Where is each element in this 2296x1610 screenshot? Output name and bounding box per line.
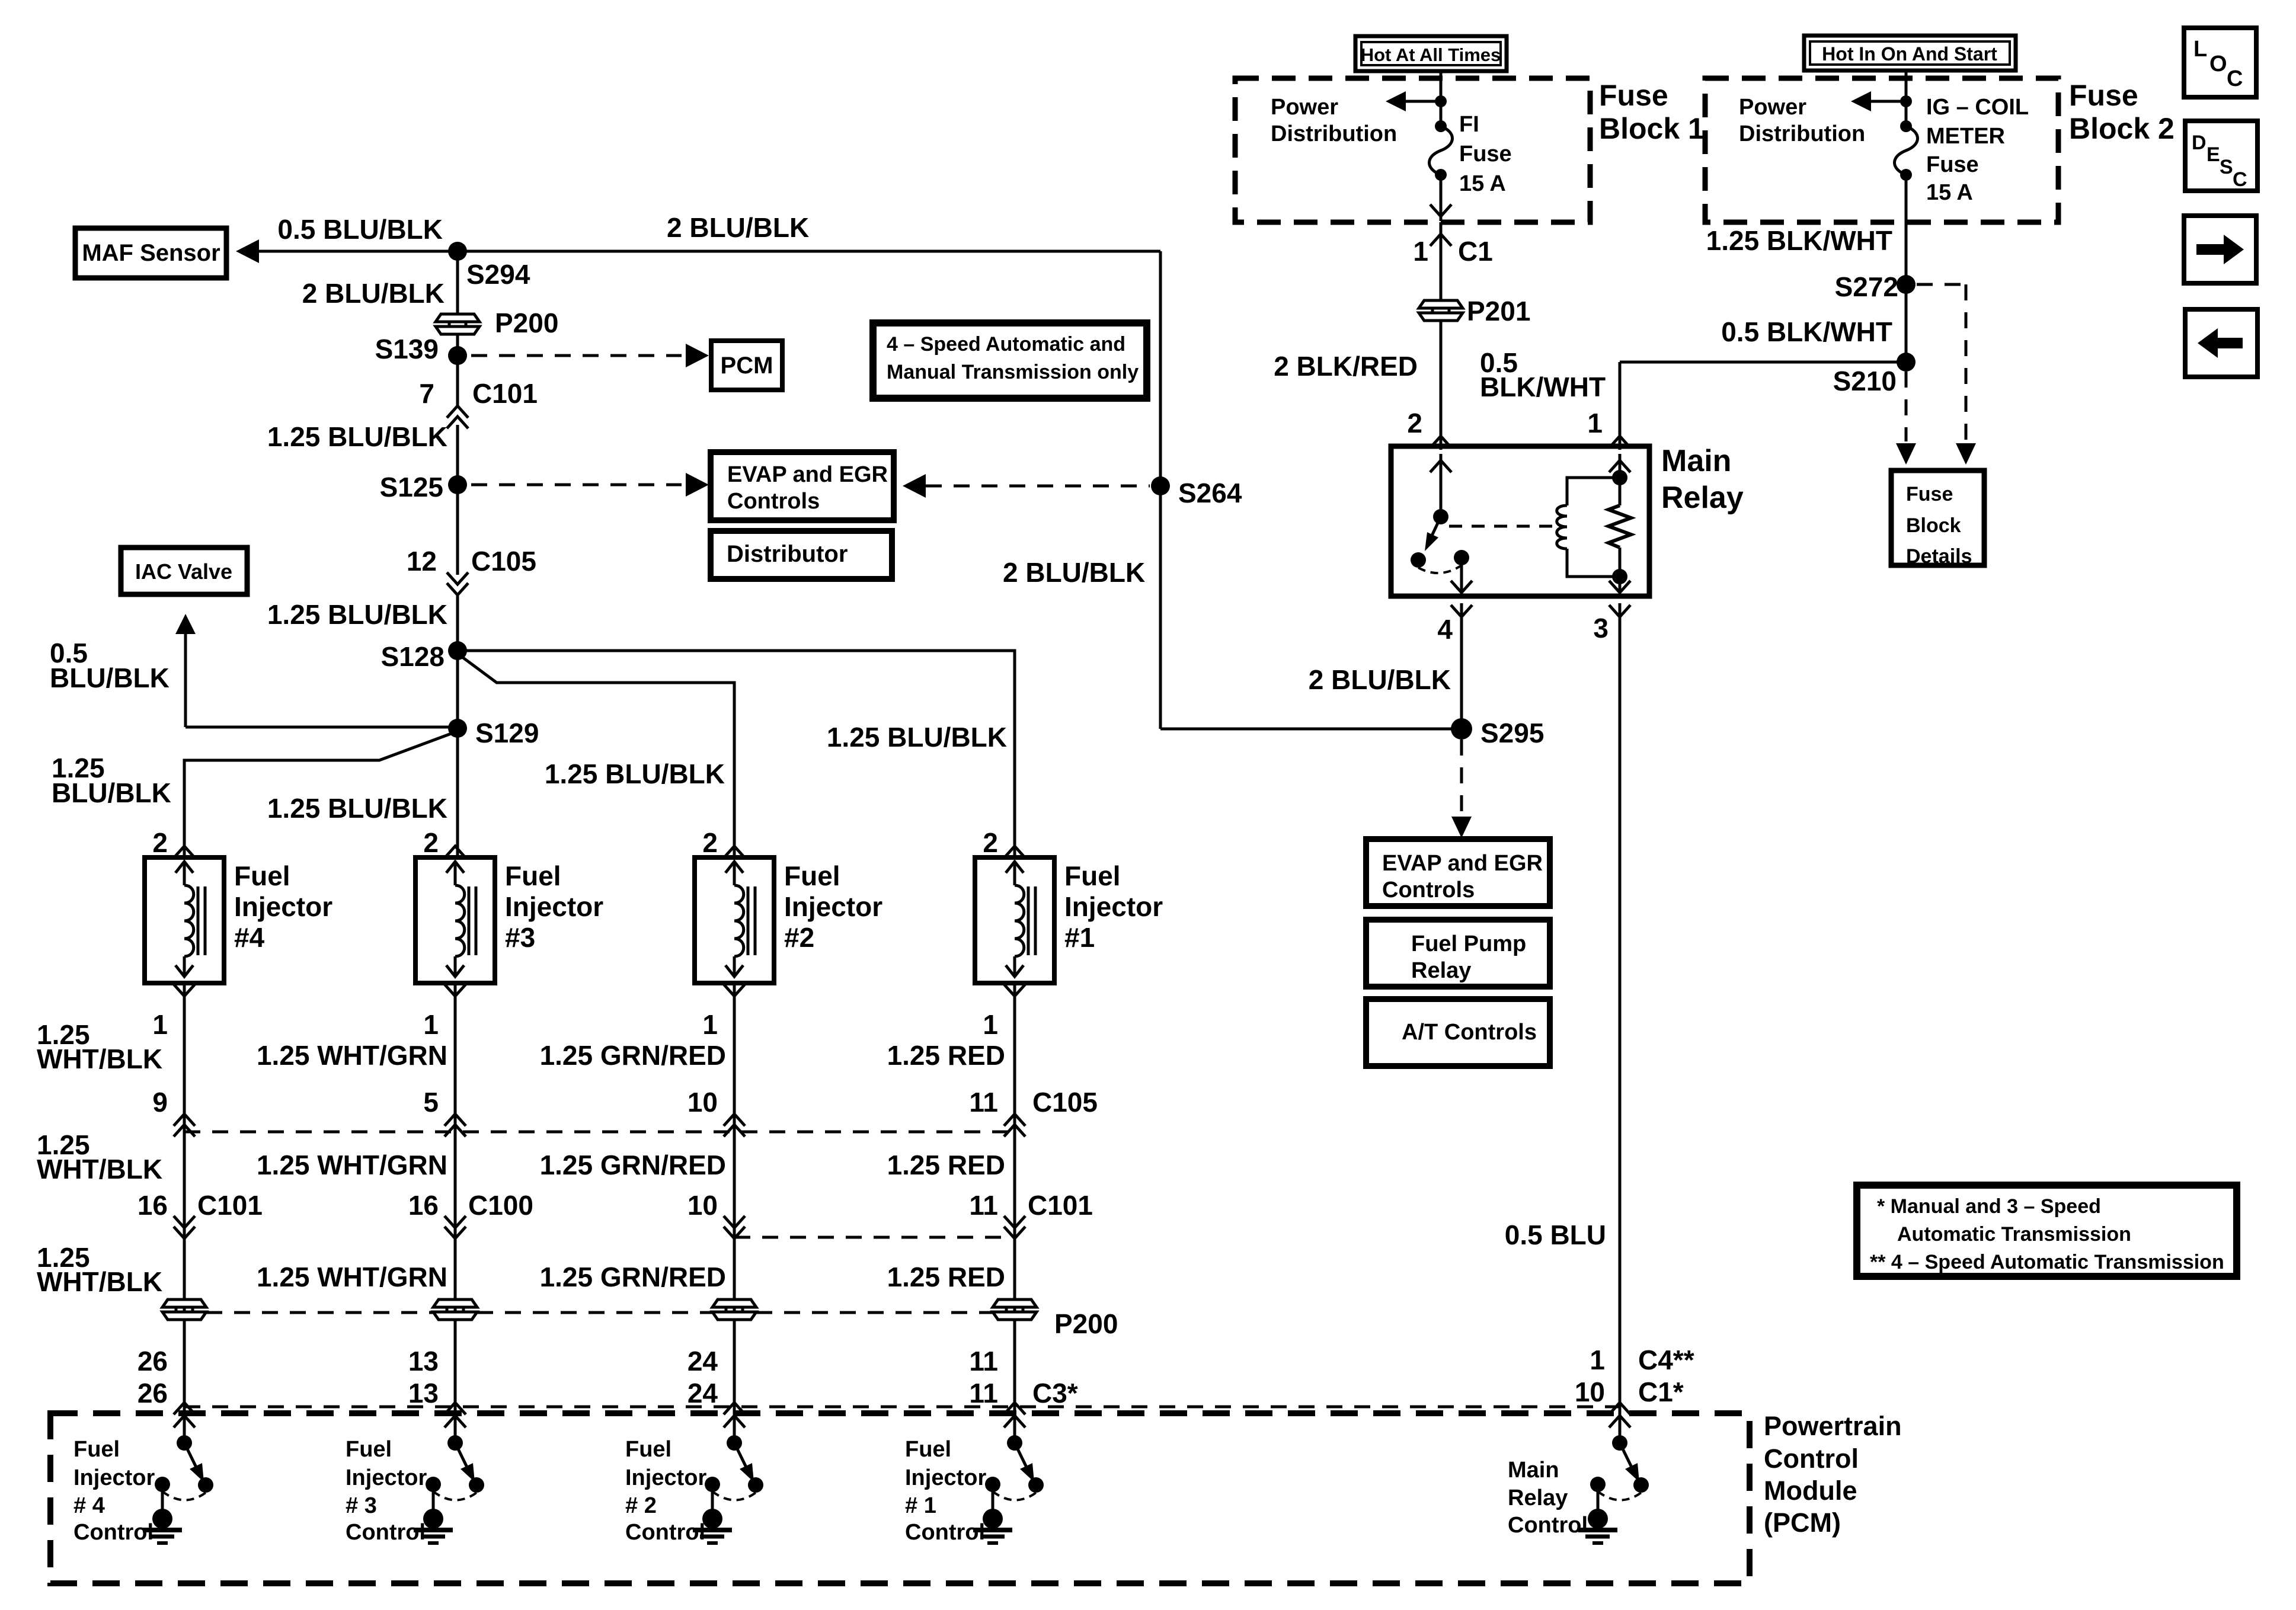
Fuse Block 1 dashed box bbox=[1235, 78, 1590, 222]
svg-text:1: 1 bbox=[1413, 236, 1428, 267]
node S210 bbox=[1833, 353, 1916, 396]
connector P201 bbox=[1419, 296, 1530, 327]
svg-text:WHT/BLK: WHT/BLK bbox=[37, 1266, 162, 1297]
svg-text:EVAP and EGR: EVAP and EGR bbox=[1382, 851, 1543, 876]
fuel injector #1 pin 1 bbox=[983, 984, 1025, 1040]
note box: 4-Speed Automatic and Manual Transmission only bbox=[873, 323, 1147, 398]
svg-text:1: 1 bbox=[702, 1009, 718, 1040]
dashed wire S295 to EVAP controls bbox=[1451, 740, 1472, 838]
fuel injector #3 pin 2 bbox=[423, 827, 466, 858]
connector C101/C100 row: pins 16,16,10,11 bbox=[137, 1190, 263, 1238]
svg-text:FI: FI bbox=[1459, 112, 1479, 137]
svg-text:P201: P201 bbox=[1467, 296, 1530, 327]
svg-text:1: 1 bbox=[1587, 408, 1603, 438]
svg-text:1.25 BLU/BLK: 1.25 BLU/BLK bbox=[827, 722, 1007, 753]
svg-text:C105: C105 bbox=[1032, 1087, 1098, 1118]
svg-text:2 BLU/BLK: 2 BLU/BLK bbox=[302, 278, 445, 309]
svg-text:# 1: # 1 bbox=[905, 1493, 936, 1518]
svg-text:Fuse: Fuse bbox=[1926, 152, 1979, 177]
svg-text:S125: S125 bbox=[380, 472, 443, 502]
dashed wire S139 to PCM bbox=[471, 344, 709, 367]
connector C105 pin 12 bbox=[407, 546, 536, 595]
svg-text:Hot At All Times: Hot At All Times bbox=[1361, 44, 1501, 65]
svg-text:C105: C105 bbox=[471, 546, 536, 577]
wire injector #2 to PCM bbox=[733, 983, 736, 1443]
svg-text:Fuel: Fuel bbox=[1064, 860, 1121, 891]
wire injector #4 to PCM bbox=[183, 983, 186, 1443]
svg-text:Distribution: Distribution bbox=[1739, 121, 1865, 146]
svg-text:5: 5 bbox=[423, 1087, 439, 1118]
svg-text:E: E bbox=[2207, 143, 2220, 166]
node S129 bbox=[448, 718, 539, 748]
svg-text:Block 1: Block 1 bbox=[1599, 112, 1705, 145]
svg-text:C4**: C4** bbox=[1638, 1345, 1694, 1375]
svg-text:1.25 GRN/RED: 1.25 GRN/RED bbox=[540, 1150, 726, 1180]
svg-text:Injector: Injector bbox=[234, 891, 332, 922]
connector C101 pin 7 bbox=[419, 378, 538, 428]
fuel injector #4 pin 1 bbox=[152, 984, 195, 1040]
svg-text:# 4: # 4 bbox=[73, 1493, 105, 1518]
dashed connector line C101 bbox=[734, 1236, 1015, 1239]
wire label 1.25 BLU/BLK (injector 4 feed) bbox=[52, 753, 171, 808]
svg-text:Fuse: Fuse bbox=[2069, 79, 2138, 112]
wire 1.25 BLK/WHT bbox=[1706, 175, 1906, 362]
svg-text:Fuel: Fuel bbox=[625, 1437, 671, 1462]
svg-text:BLU/BLK: BLU/BLK bbox=[52, 777, 171, 808]
svg-text:L: L bbox=[2193, 37, 2207, 62]
svg-text:26: 26 bbox=[137, 1346, 168, 1377]
driver: fuel injector # 4 control bbox=[143, 1435, 213, 1543]
svg-text:Distribution: Distribution bbox=[1271, 121, 1397, 146]
svg-text:Power: Power bbox=[1271, 95, 1338, 120]
svg-text:C: C bbox=[2233, 168, 2247, 191]
svg-text:1.25 RED: 1.25 RED bbox=[887, 1262, 1005, 1292]
wire from Hot At All Times into fuse block bbox=[1440, 71, 1443, 126]
wire label 1.25 WHT/BLK (row 1) bbox=[37, 1019, 162, 1074]
wire injector #1 to PCM bbox=[1013, 983, 1016, 1443]
svg-text:Block: Block bbox=[1906, 514, 1961, 537]
wire 0.5 BLU/BLK to IAC Valve with arrow bbox=[50, 614, 458, 727]
svg-text:9: 9 bbox=[152, 1087, 168, 1118]
relay pin 3 bbox=[1593, 603, 1630, 1443]
node S294 bbox=[448, 242, 530, 290]
svg-text:1: 1 bbox=[983, 1009, 998, 1040]
svg-text:S129: S129 bbox=[475, 718, 539, 748]
svg-text:26: 26 bbox=[137, 1378, 168, 1409]
fuel injector #2 bbox=[695, 857, 774, 983]
svg-text:O: O bbox=[2209, 52, 2227, 76]
svg-text:1.25 BLU/BLK: 1.25 BLU/BLK bbox=[267, 421, 447, 452]
svg-text:16: 16 bbox=[137, 1190, 168, 1221]
svg-text:Controls: Controls bbox=[1382, 878, 1475, 902]
svg-text:Fuse: Fuse bbox=[1599, 79, 1668, 112]
svg-text:C1: C1 bbox=[1458, 236, 1493, 267]
wire to S295 horizontal bbox=[1160, 728, 1462, 731]
svg-text:16: 16 bbox=[408, 1190, 439, 1221]
svg-text:C101: C101 bbox=[197, 1190, 263, 1221]
svg-text:1: 1 bbox=[1590, 1345, 1605, 1375]
svg-text:11: 11 bbox=[969, 1378, 998, 1409]
svg-text:Injector: Injector bbox=[784, 891, 882, 922]
svg-text:IG – COIL: IG – COIL bbox=[1926, 95, 2029, 120]
svg-text:C101: C101 bbox=[472, 378, 538, 409]
svg-text:2: 2 bbox=[1407, 408, 1422, 438]
svg-text:# 2: # 2 bbox=[625, 1493, 657, 1518]
dashed connector line C3/C1 into PCM bbox=[184, 1406, 1620, 1409]
connector C1 pin 1 bbox=[1413, 222, 1492, 302]
svg-text:Injector: Injector bbox=[905, 1465, 986, 1490]
svg-text:WHT/BLK: WHT/BLK bbox=[37, 1044, 162, 1074]
PCM box bbox=[711, 341, 782, 390]
svg-text:Module: Module bbox=[1764, 1475, 1857, 1506]
svg-text:Main: Main bbox=[1508, 1458, 1559, 1483]
relay resistor bbox=[1609, 505, 1631, 548]
connector C105 row: pins 9,5,10,11 bbox=[152, 1087, 195, 1137]
svg-text:S128: S128 bbox=[381, 641, 445, 672]
svg-text:12: 12 bbox=[407, 546, 437, 577]
Fuel Pump Relay box bbox=[1366, 920, 1550, 987]
svg-text:WHT/BLK: WHT/BLK bbox=[37, 1154, 162, 1185]
Powertrain Control Module dashed box bbox=[50, 1413, 1750, 1583]
svg-text:S: S bbox=[2220, 156, 2233, 178]
relay coil bbox=[1557, 470, 1627, 584]
svg-text:Fuel Pump: Fuel Pump bbox=[1411, 932, 1526, 956]
svg-text:(PCM): (PCM) bbox=[1764, 1507, 1841, 1538]
svg-text:Injector: Injector bbox=[505, 891, 603, 922]
svg-text:METER: METER bbox=[1926, 124, 2005, 149]
Fuse Block 2 dashed box bbox=[1705, 78, 2058, 222]
wire 1.25 BLU/BLK spine C105 to S129 bbox=[267, 593, 458, 857]
wire 2 BLU/BLK spine S294 to P200 bbox=[302, 251, 458, 314]
fuel injector #4 bbox=[145, 857, 224, 983]
relay mechanical link dashed bbox=[1449, 525, 1553, 528]
driver: fuel injector # 2 control bbox=[693, 1435, 763, 1543]
svg-text:C: C bbox=[2227, 66, 2243, 91]
svg-text:Injector: Injector bbox=[73, 1465, 155, 1490]
svg-text:Fuel: Fuel bbox=[346, 1437, 392, 1462]
wire S210 to relay pin 1 bbox=[1620, 361, 1906, 364]
svg-text:IAC Valve: IAC Valve bbox=[135, 559, 232, 584]
svg-text:P200: P200 bbox=[495, 308, 558, 338]
svg-text:0.5 BLU: 0.5 BLU bbox=[1505, 1219, 1606, 1250]
Hot At All Times box bbox=[1355, 36, 1507, 71]
svg-text:Relay: Relay bbox=[1411, 958, 1471, 983]
EVAP and EGR Controls box (lower) bbox=[1366, 839, 1550, 906]
svg-text:BLU/BLK: BLU/BLK bbox=[50, 662, 170, 693]
nav button DESC bbox=[2185, 121, 2257, 191]
node S264 bbox=[1151, 476, 1242, 508]
svg-text:Fuel: Fuel bbox=[73, 1437, 120, 1462]
connector P200 row bbox=[162, 1299, 206, 1320]
fuel injector #1 pin 2 bbox=[983, 827, 1025, 858]
driver: main relay control bbox=[1578, 1435, 1649, 1543]
node S128 bbox=[381, 641, 467, 672]
svg-text:Control: Control bbox=[346, 1520, 426, 1545]
svg-text:1: 1 bbox=[423, 1009, 439, 1040]
svg-text:2: 2 bbox=[702, 827, 718, 858]
svg-text:S272: S272 bbox=[1835, 271, 1898, 302]
svg-text:10: 10 bbox=[687, 1087, 718, 1118]
svg-text:D: D bbox=[2192, 132, 2207, 154]
IG-COIL METER Fuse 15 A bbox=[1895, 120, 1918, 181]
svg-text:Automatic Transmission: Automatic Transmission bbox=[1897, 1223, 2131, 1246]
Fuse Block Details box bbox=[1891, 470, 1984, 568]
wire label 0.5 BLK/WHT (to relay pin 1) bbox=[1480, 347, 1606, 402]
fuel injector #3 pin 1 bbox=[423, 984, 466, 1040]
svg-text:1.25 BLU/BLK: 1.25 BLU/BLK bbox=[267, 793, 447, 824]
wire 1.25 BLU/BLK spine C101 to C105 bbox=[267, 421, 458, 575]
svg-text:3: 3 bbox=[1593, 613, 1609, 644]
svg-text:Controls: Controls bbox=[727, 489, 820, 514]
svg-text:S295: S295 bbox=[1480, 718, 1544, 748]
wire 2 BLU/BLK second vertical bbox=[1003, 251, 1160, 729]
svg-text:S210: S210 bbox=[1833, 366, 1897, 396]
node S295 bbox=[1451, 718, 1544, 748]
dashed branch S272 to fuse block details bbox=[1917, 284, 1976, 465]
wire 2 BLK/RED to relay pin 2 bbox=[1274, 321, 1451, 450]
svg-text:Relay: Relay bbox=[1508, 1486, 1568, 1510]
svg-text:C101: C101 bbox=[1028, 1190, 1093, 1221]
EVAP and EGR Controls box (upper) bbox=[711, 452, 894, 520]
MAF Sensor box bbox=[75, 228, 226, 278]
wire 0.5 BLU/BLK to MAF Sensor with arrow bbox=[236, 214, 458, 263]
svg-text:2 BLU/BLK: 2 BLU/BLK bbox=[1003, 557, 1145, 588]
svg-text:S294: S294 bbox=[466, 259, 530, 290]
svg-text:1.25 WHT/GRN: 1.25 WHT/GRN bbox=[257, 1262, 447, 1292]
svg-text:Control: Control bbox=[905, 1520, 985, 1545]
Hot In On And Start box bbox=[1804, 36, 2016, 71]
svg-text:2: 2 bbox=[423, 827, 439, 858]
svg-text:Fuel: Fuel bbox=[784, 860, 840, 891]
svg-text:2 BLU/BLK: 2 BLU/BLK bbox=[667, 212, 809, 243]
wire injector #3 to PCM bbox=[454, 983, 457, 1443]
svg-text:1.25 BLU/BLK: 1.25 BLU/BLK bbox=[267, 599, 447, 630]
dashed connector line C105 bbox=[184, 1131, 1015, 1134]
svg-text:Control: Control bbox=[1764, 1443, 1859, 1474]
svg-text:Injector: Injector bbox=[346, 1465, 427, 1490]
svg-text:# 3: # 3 bbox=[346, 1493, 377, 1518]
svg-text:Main: Main bbox=[1661, 444, 1731, 478]
FI Fuse 15 A bbox=[1430, 120, 1453, 181]
node S272 bbox=[1835, 271, 1916, 302]
svg-text:C3*: C3* bbox=[1032, 1378, 1078, 1409]
svg-text:13: 13 bbox=[408, 1378, 439, 1409]
svg-text:#1: #1 bbox=[1064, 922, 1095, 953]
svg-text:11: 11 bbox=[969, 1346, 998, 1377]
svg-text:2 BLK/RED: 2 BLK/RED bbox=[1274, 351, 1418, 382]
wire label 1.25 WHT/BLK (row 2) bbox=[37, 1129, 162, 1185]
svg-text:Powertrain: Powertrain bbox=[1764, 1411, 1902, 1441]
IAC Valve box bbox=[121, 548, 247, 594]
svg-text:0.5 BLU/BLK: 0.5 BLU/BLK bbox=[277, 214, 443, 245]
wire 2 BLU/BLK top horizontal bbox=[458, 212, 1160, 251]
svg-text:Control: Control bbox=[73, 1520, 154, 1545]
svg-text:24: 24 bbox=[687, 1346, 718, 1377]
svg-text:Details: Details bbox=[1906, 545, 1972, 568]
svg-text:0.5 BLK/WHT: 0.5 BLK/WHT bbox=[1721, 316, 1892, 347]
wire S129 to Fuel Injector 4 bbox=[184, 731, 458, 857]
svg-text:Hot In On And Start: Hot In On And Start bbox=[1822, 43, 1997, 65]
driver: fuel injector # 1 control bbox=[973, 1435, 1044, 1543]
relay switch (pins 2-4) bbox=[1411, 454, 1472, 593]
label Powertrain Control Module (PCM) bbox=[1764, 1411, 1902, 1538]
relay pin1-pin3 internal wire bbox=[1609, 454, 1630, 593]
svg-text:10: 10 bbox=[1575, 1377, 1605, 1407]
svg-text:Control: Control bbox=[625, 1520, 705, 1545]
svg-text:1.25 GRN/RED: 1.25 GRN/RED bbox=[540, 1040, 726, 1071]
power distribution arrow bbox=[1386, 91, 1447, 111]
fuel injector #2 pin 1 bbox=[702, 984, 745, 1040]
svg-text:Power: Power bbox=[1739, 95, 1806, 120]
svg-text:10: 10 bbox=[687, 1190, 718, 1221]
wire S128 to Fuel Injector 2 bbox=[458, 654, 734, 857]
svg-text:Control: Control bbox=[1508, 1513, 1588, 1538]
svg-text:P200: P200 bbox=[1054, 1308, 1118, 1339]
svg-text:2: 2 bbox=[983, 827, 998, 858]
power distribution arrow 2 bbox=[1851, 91, 1912, 111]
svg-text:7: 7 bbox=[419, 378, 434, 409]
Main Relay box bbox=[1391, 444, 1744, 596]
dashed wire S264 to EVAP box with arrow bbox=[903, 474, 1150, 498]
wire label 1.25 WHT/BLK (row 3) bbox=[37, 1242, 162, 1297]
svg-text:1.25 RED: 1.25 RED bbox=[887, 1150, 1005, 1180]
nav button next arrow bbox=[2184, 216, 2256, 283]
svg-text:4 – Speed Automatic and: 4 – Speed Automatic and bbox=[887, 333, 1125, 356]
svg-text:1.25 WHT/GRN: 1.25 WHT/GRN bbox=[257, 1150, 447, 1180]
svg-text:1: 1 bbox=[152, 1009, 168, 1040]
svg-text:C1*: C1* bbox=[1638, 1377, 1684, 1407]
svg-text:1.25 BLK/WHT: 1.25 BLK/WHT bbox=[1706, 225, 1892, 256]
svg-text:* Manual and 3 – Speed: * Manual and 3 – Speed bbox=[1877, 1195, 2101, 1218]
dashed wire S210 to fuse block details bbox=[1896, 372, 1916, 465]
fuel injector #4 pin 2 bbox=[152, 827, 195, 858]
node S125 bbox=[380, 472, 467, 502]
svg-text:15 A: 15 A bbox=[1459, 171, 1506, 196]
svg-text:1.25 RED: 1.25 RED bbox=[887, 1040, 1005, 1071]
svg-text:4: 4 bbox=[1437, 614, 1453, 645]
svg-text:Fuel: Fuel bbox=[505, 860, 561, 891]
connector P200 (top) bbox=[436, 308, 558, 338]
svg-text:C100: C100 bbox=[468, 1190, 533, 1221]
fuel injector #1 bbox=[975, 857, 1054, 983]
svg-text:Injector: Injector bbox=[625, 1465, 706, 1490]
svg-text:S139: S139 bbox=[375, 334, 439, 364]
svg-text:#3: #3 bbox=[505, 922, 535, 953]
fuel injector #3 bbox=[415, 857, 495, 983]
wire spine P200 to C101 bbox=[456, 334, 459, 406]
fuel injector #2 pin 2 bbox=[702, 827, 745, 858]
svg-text:1.25 GRN/RED: 1.25 GRN/RED bbox=[540, 1262, 726, 1292]
svg-text:A/T Controls: A/T Controls bbox=[1402, 1020, 1537, 1045]
nav button prev arrow bbox=[2185, 309, 2257, 377]
svg-text:Distributor: Distributor bbox=[727, 541, 848, 567]
relay pin 2 entry bbox=[1587, 362, 1630, 450]
svg-text:** 4 – Speed Automatic Transmi: ** 4 – Speed Automatic Transmission bbox=[1870, 1251, 2224, 1273]
Distributor box bbox=[711, 531, 892, 579]
svg-text:1.25 BLU/BLK: 1.25 BLU/BLK bbox=[545, 758, 725, 789]
svg-text:Fuse: Fuse bbox=[1459, 142, 1512, 167]
wire S128 to Fuel Injector 1 bbox=[458, 651, 1015, 857]
svg-text:2: 2 bbox=[152, 827, 168, 858]
svg-text:Injector: Injector bbox=[1064, 891, 1163, 922]
svg-text:2 BLU/BLK: 2 BLU/BLK bbox=[1309, 664, 1451, 695]
svg-text:Fuse: Fuse bbox=[1906, 483, 1953, 505]
relay pin 4 bbox=[1437, 603, 1472, 729]
svg-text:15 A: 15 A bbox=[1926, 180, 1973, 205]
A/T Controls box bbox=[1366, 999, 1550, 1066]
svg-text:MAF Sensor: MAF Sensor bbox=[82, 240, 220, 266]
svg-text:24: 24 bbox=[687, 1378, 718, 1409]
svg-text:Fuel: Fuel bbox=[905, 1437, 951, 1462]
svg-text:Fuel: Fuel bbox=[234, 860, 290, 891]
svg-text:EVAP and EGR: EVAP and EGR bbox=[727, 462, 888, 487]
svg-text:11: 11 bbox=[969, 1190, 998, 1221]
node S139 bbox=[375, 334, 467, 365]
svg-text:S264: S264 bbox=[1178, 478, 1242, 508]
svg-text:PCM: PCM bbox=[721, 353, 773, 379]
svg-text:#2: #2 bbox=[784, 922, 814, 953]
svg-text:Block 2: Block 2 bbox=[2069, 112, 2175, 145]
svg-text:11: 11 bbox=[969, 1087, 998, 1118]
svg-text:1.25 WHT/GRN: 1.25 WHT/GRN bbox=[257, 1040, 447, 1071]
note box: transmission notes bbox=[1857, 1185, 2237, 1276]
nav button LOC bbox=[2184, 28, 2256, 97]
svg-text:#4: #4 bbox=[234, 922, 265, 953]
svg-text:Manual Transmission only: Manual Transmission only bbox=[887, 361, 1139, 383]
svg-text:13: 13 bbox=[408, 1346, 439, 1377]
svg-text:Relay: Relay bbox=[1661, 481, 1744, 515]
dashed wire S125 to EVAP and EGR Controls bbox=[471, 473, 709, 497]
svg-text:BLK/WHT: BLK/WHT bbox=[1480, 372, 1606, 402]
driver: fuel injector # 3 control bbox=[414, 1435, 484, 1543]
